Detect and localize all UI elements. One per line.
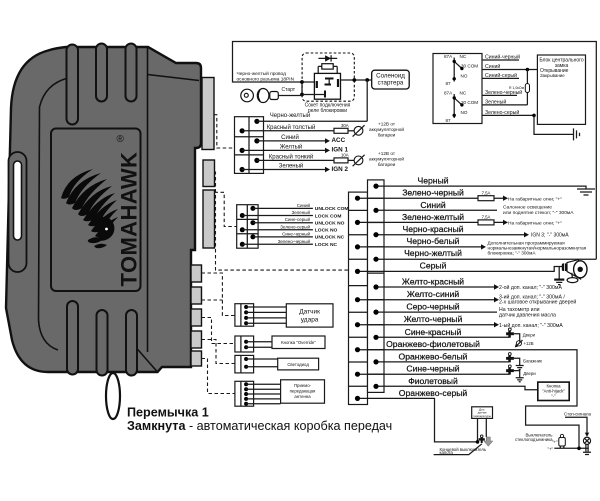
svg-text:Приемо-: Приемо- xyxy=(294,383,312,388)
svg-text:Сине-серый: Сине-серый xyxy=(285,216,311,222)
svg-text:Зелено-серый: Зелено-серый xyxy=(280,223,310,229)
svg-text:Зелено-черный: Зелено-черный xyxy=(402,188,464,198)
svg-text:Зелено-серый: Зелено-серый xyxy=(485,109,519,116)
svg-text:Синий: Синий xyxy=(297,202,311,208)
svg-text:"-": "-" xyxy=(551,394,556,399)
svg-text:Датчик: Датчик xyxy=(299,308,320,315)
svg-text:Синий: Синий xyxy=(485,63,500,70)
svg-text:Желто-синий: Желто-синий xyxy=(407,289,459,299)
svg-text:UNLOCK COM: UNLOCK COM xyxy=(315,206,349,212)
svg-text:Закрывание: Закрывание xyxy=(540,73,565,78)
svg-text:Двери: Двери xyxy=(523,371,536,376)
svg-text:Зеленый: Зеленый xyxy=(485,98,506,105)
svg-text:Старт: Старт xyxy=(282,87,296,93)
svg-text:7,5А: 7,5А xyxy=(482,215,491,220)
svg-text:Светодиод: Светодиод xyxy=(287,362,309,367)
svg-text:Соленоид: Соленоид xyxy=(376,73,405,80)
svg-text:Оранжево-серый: Оранжево-серый xyxy=(399,388,468,398)
svg-text:Стоп-сигнала: Стоп-сигнала xyxy=(564,412,592,417)
svg-text:LOCK NO: LOCK NO xyxy=(315,228,338,234)
svg-text:87: 87 xyxy=(446,118,452,123)
svg-text:7,5А: 7,5А xyxy=(482,190,491,195)
svg-text:датчик давления масла: датчик давления масла xyxy=(499,312,556,318)
svg-text:LOCK COM: LOCK COM xyxy=(315,213,342,219)
svg-text:NC: NC xyxy=(460,54,467,59)
svg-text:2-ой доп. канал; "-" 300мА: 2-ой доп. канал; "-" 300мА xyxy=(499,284,562,291)
svg-text:®: ® xyxy=(117,134,125,145)
svg-text:TOMAHAWK: TOMAHAWK xyxy=(117,152,142,287)
svg-text:реле блокировки: реле блокировки xyxy=(308,108,347,114)
svg-text:87A: 87A xyxy=(444,91,453,96)
svg-text:основного разъема 18PIN: основного разъема 18PIN xyxy=(237,77,295,83)
svg-text:Синий: Синий xyxy=(281,134,299,141)
svg-text:Зеленый: Зеленый xyxy=(292,209,311,215)
svg-text:Черно-белый: Черно-белый xyxy=(407,236,460,246)
svg-text:Салонное освещение: Салонное освещение xyxy=(503,204,552,210)
svg-text:R 1,0кОм: R 1,0кОм xyxy=(509,86,525,90)
svg-text:стеклоподъемника: стеклоподъемника xyxy=(515,437,553,442)
svg-text:аккумуляторной: аккумуляторной xyxy=(369,126,404,132)
svg-text:1-ый доп. канал; "-" 300мА: 1-ый доп. канал; "-" 300мА xyxy=(499,322,563,329)
svg-text:30 COM: 30 COM xyxy=(461,100,478,105)
svg-text:87A: 87A xyxy=(444,54,453,59)
svg-text:Красный толстый: Красный толстый xyxy=(267,124,316,131)
svg-text:На габаритные огни; "+": На габаритные огни; "+" xyxy=(508,221,562,227)
svg-text:батареи: батареи xyxy=(378,133,396,138)
svg-text:ACC: ACC xyxy=(332,137,346,144)
svg-text:UNLOCK NC: UNLOCK NC xyxy=(315,235,345,241)
svg-text:10А: 10А xyxy=(341,153,349,158)
svg-text:NO: NO xyxy=(461,74,468,79)
svg-text:+12В от: +12В от xyxy=(378,151,396,156)
svg-text:NO: NO xyxy=(461,110,468,115)
svg-text:LOCK NC: LOCK NC xyxy=(315,242,338,248)
svg-text:"+": "+" xyxy=(552,440,558,445)
svg-text:Желтый: Желтый xyxy=(280,143,303,150)
svg-text:Зеленый: Зеленый xyxy=(279,163,304,170)
svg-text:Синий: Синий xyxy=(420,200,446,210)
svg-text:IGN 3; "-" 300мА: IGN 3; "-" 300мА xyxy=(531,233,569,239)
svg-text:+12В от: +12В от xyxy=(378,122,396,127)
svg-text:Синий-черный: Синий-черный xyxy=(485,54,520,61)
svg-text:Желто-красный: Желто-красный xyxy=(402,277,464,287)
svg-text:Желто-черный: Желто-черный xyxy=(404,314,463,324)
svg-text:Багажник: Багажник xyxy=(523,359,542,364)
svg-text:"+": "+" xyxy=(548,447,554,452)
svg-text:стартера: стартера xyxy=(378,80,404,87)
svg-text:Кнопка "Override": Кнопка "Override" xyxy=(281,340,316,345)
svg-text:или поднятие стекол; "-" 300мА: или поднятие стекол; "-" 300мА xyxy=(503,210,574,216)
svg-text:Красный тонкий: Красный тонкий xyxy=(269,153,313,160)
svg-text:капота: капота xyxy=(440,450,454,455)
svg-text:Фиолетовый: Фиолетовый xyxy=(408,376,458,386)
svg-text:Зелено-черный: Зелено-черный xyxy=(278,238,311,244)
svg-text:Черно-желтый: Черно-желтый xyxy=(404,248,462,258)
svg-text:блокировка; "-" 300мА: блокировка; "-" 300мА xyxy=(488,251,537,256)
svg-text:Серо-черный: Серо-черный xyxy=(406,302,459,312)
svg-text:+12В: +12В xyxy=(524,341,534,346)
svg-text:87: 87 xyxy=(446,81,452,86)
svg-text:Сине-черный: Сине-черный xyxy=(282,230,310,236)
svg-text:Зелено-желтый: Зелено-желтый xyxy=(402,212,464,222)
svg-text:NC: NC xyxy=(460,91,467,96)
svg-text:Черно-желтый: Черно-желтый xyxy=(270,112,310,119)
svg-text:Черный: Черный xyxy=(417,176,448,186)
svg-text:Оранжево-белый: Оранжево-белый xyxy=(399,351,468,361)
svg-text:Сине-красный: Сине-красный xyxy=(405,327,462,337)
svg-text:Оранжево-фиолетовый: Оранжево-фиолетовый xyxy=(386,339,480,349)
svg-text:Перемычка 1: Перемычка 1 xyxy=(127,406,209,420)
svg-text:Сине-черный: Сине-черный xyxy=(406,364,459,374)
svg-text:аккумуляторной: аккумуляторной xyxy=(369,156,404,162)
svg-text:удара: удара xyxy=(301,316,319,323)
svg-text:антенна: антенна xyxy=(294,394,311,399)
svg-text:Синий-серый: Синий-серый xyxy=(485,72,517,79)
svg-text:Двери: Двери xyxy=(523,333,536,338)
svg-text:температуры: температуры xyxy=(473,414,491,418)
svg-text:2-х шаговое открывание дверей: 2-х шаговое открывание дверей xyxy=(499,299,576,306)
svg-text:30 COM: 30 COM xyxy=(461,64,478,69)
svg-text:передающая: передающая xyxy=(290,388,316,393)
svg-text:Замкнута - автоматическая коро: Замкнута - автоматическая коробка переда… xyxy=(127,419,392,433)
svg-text:Черно-желтый провод: Черно-желтый провод xyxy=(237,70,287,77)
svg-text:UNLOCK NO: UNLOCK NO xyxy=(315,221,345,227)
svg-text:IGN 2: IGN 2 xyxy=(332,166,349,173)
svg-text:Серый: Серый xyxy=(420,260,447,270)
svg-text:Черно-красный: Черно-красный xyxy=(402,224,463,234)
svg-text:30А: 30А xyxy=(341,123,349,128)
svg-text:батареи: батареи xyxy=(378,162,396,167)
svg-text:На габаритные огни; "+": На габаритные огни; "+" xyxy=(508,196,562,202)
